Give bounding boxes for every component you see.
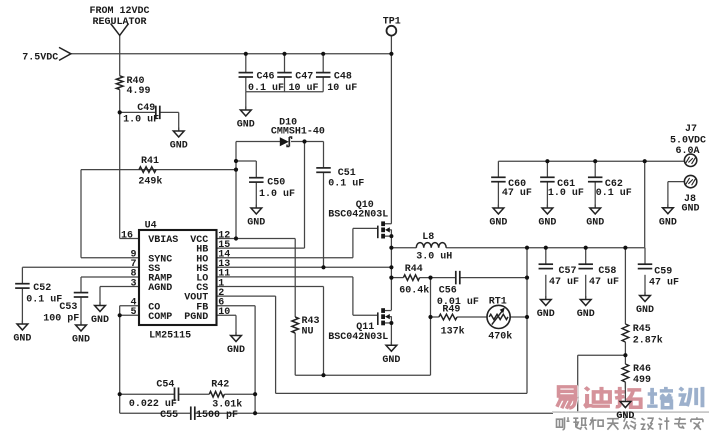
svg-text:GND: GND [537,309,555,320]
svg-text:VBIAS: VBIAS [148,235,178,246]
svg-text:L8: L8 [422,232,434,243]
svg-text:R44: R44 [405,264,423,275]
svg-text:GND: GND [170,141,188,152]
svg-text:6.0A: 6.0A [675,146,699,157]
svg-text:GND: GND [489,218,507,229]
svg-text:GND: GND [577,309,595,320]
svg-text:NU: NU [302,326,314,337]
svg-text:0.1 uF: 0.1 uF [328,178,364,189]
svg-text:3: 3 [130,278,136,289]
svg-text:C53: C53 [59,302,77,313]
svg-text:C56: C56 [439,286,457,297]
svg-text:RT1: RT1 [489,296,507,307]
svg-text:R42: R42 [211,379,229,390]
svg-text:GND: GND [636,305,654,316]
svg-text:GND: GND [382,355,400,366]
svg-text:3.01k: 3.01k [212,399,242,411]
svg-text:1.0 uF: 1.0 uF [259,189,295,200]
svg-text:AGND: AGND [148,283,172,294]
svg-text:10: 10 [218,307,230,318]
svg-text:C47: C47 [295,72,313,83]
svg-text:3.0 uH: 3.0 uH [416,251,452,262]
svg-text:CMMSH1-40: CMMSH1-40 [271,126,325,137]
svg-text:C49: C49 [137,103,155,114]
svg-text:0.1 uF: 0.1 uF [596,188,632,199]
svg-text:C48: C48 [334,72,352,83]
svg-text:GND: GND [247,218,265,229]
svg-text:GND: GND [237,120,255,131]
svg-text:R41: R41 [141,156,159,167]
svg-text:LM25115: LM25115 [149,330,191,341]
svg-text:BSC042N03L: BSC042N03L [328,210,388,221]
svg-text:100 pF: 100 pF [43,313,79,324]
svg-text:47 uF: 47 uF [549,277,579,288]
svg-text:TP1: TP1 [383,17,401,28]
svg-text:GND: GND [13,334,31,345]
svg-text:C55: C55 [160,410,178,421]
svg-text:R46: R46 [633,364,651,375]
svg-text:C58: C58 [598,266,616,277]
svg-text:REGULATOR: REGULATOR [93,17,147,28]
svg-text:GND: GND [586,218,604,229]
svg-text:C50: C50 [267,177,285,188]
svg-text:FROM 12VDC: FROM 12VDC [90,6,150,17]
svg-text:R49: R49 [442,305,460,316]
svg-text:C57: C57 [559,266,577,277]
svg-text:16: 16 [121,230,133,241]
svg-text:GND: GND [538,218,556,229]
svg-text:249k: 249k [138,176,162,188]
svg-text:GND: GND [659,217,677,228]
svg-text:137k: 137k [441,326,465,338]
svg-text:10 uF: 10 uF [289,83,319,94]
svg-text:0.1 uF: 0.1 uF [248,83,284,94]
svg-text:47 uF: 47 uF [502,188,532,199]
svg-text:GND: GND [72,335,90,346]
svg-text:4.99: 4.99 [127,86,151,97]
svg-text:PGND: PGND [184,312,208,323]
svg-text:J7: J7 [685,124,697,135]
svg-text:0.022 uF: 0.022 uF [129,399,177,410]
svg-text:1.0 uF: 1.0 uF [123,115,159,126]
svg-text:GND: GND [616,411,634,422]
svg-text:1.0 uF: 1.0 uF [548,188,584,199]
svg-text:10 uF: 10 uF [327,83,357,94]
svg-text:0.1 uF: 0.1 uF [26,295,62,306]
svg-text:GND: GND [682,203,700,214]
svg-text:GND: GND [227,345,245,356]
svg-text:60.4k: 60.4k [399,285,429,297]
svg-text:5.0VDC: 5.0VDC [670,135,706,146]
svg-text:C52: C52 [33,283,51,294]
svg-text:R45: R45 [633,324,651,335]
svg-text:BSC042N03L: BSC042N03L [328,332,388,343]
svg-text:2.87k: 2.87k [633,334,663,346]
svg-text:47 uF: 47 uF [649,277,679,288]
svg-text:47 uF: 47 uF [589,277,619,288]
svg-text:C51: C51 [338,168,356,179]
svg-text:C59: C59 [654,267,672,278]
svg-text:499: 499 [633,375,651,386]
svg-text:COMP: COMP [148,312,172,323]
svg-text:5: 5 [130,307,136,318]
svg-text:1500 pF: 1500 pF [196,410,238,421]
svg-text:7.5VDC: 7.5VDC [22,52,58,63]
svg-text:GND: GND [91,315,109,326]
svg-text:C46: C46 [257,72,275,83]
svg-text:470k: 470k [488,331,512,343]
svg-text:C54: C54 [156,379,174,390]
